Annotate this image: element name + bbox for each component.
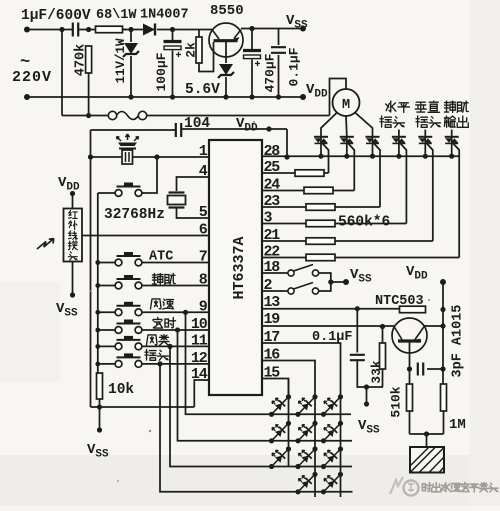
button ATC (115, 252, 142, 266)
resistor 10k (97, 373, 103, 399)
triac T2 gate wire (348, 144, 354, 191)
VSS top terminal (300, 26, 306, 32)
LED matrix row 1 line (272, 413, 352, 415)
triac T3 main vertical (372, 136, 374, 156)
wire 2k bottom to base (199, 42, 214, 72)
pin 3 wire (262, 223, 306, 225)
svg-text:NTC503: NTC503 (375, 294, 424, 309)
triac T4 main vertical (398, 136, 400, 156)
svg-text:11V/1W: 11V/1W (114, 38, 128, 84)
label fengsu (150, 299, 161, 309)
resistor 470k (86, 46, 92, 73)
IR receiver VDD terminal (70, 191, 75, 196)
triac T5 (418, 137, 432, 144)
pin 15 wire to column1 (262, 379, 289, 397)
LED row3 col2 (295, 446, 317, 469)
svg-text:10k: 10k (108, 382, 134, 398)
VDD terminal right of rail (300, 94, 306, 100)
wire pin11 to row3 (170, 346, 272, 466)
pin 3 resistor right wire (335, 223, 406, 225)
junction NTC right (440, 307, 445, 312)
junction fuse branch (59, 27, 64, 32)
capacitor 470uF (251, 29, 253, 51)
pin 21 wire (262, 240, 306, 242)
junction 33k top (380, 324, 385, 329)
button fengsu right wire to pin9 (142, 311, 209, 313)
pin 2 wire (262, 290, 288, 292)
fuse line (62, 115, 109, 117)
wire pin12 to row4 (160, 364, 298, 492)
pin 25 resistor right wire (324, 172, 329, 174)
capacitor 3pF (418, 363, 423, 376)
button yaotou (115, 353, 142, 367)
button ATC left wire (98, 262, 115, 264)
capacitor 0.1uF lower (356, 309, 358, 353)
pin 1 wire with IR indicator (91, 156, 122, 158)
fuse F1 (108, 111, 146, 119)
IR receiver VSS terminal (70, 292, 75, 297)
svg-text:470k: 470k (74, 44, 89, 76)
button S1 stem (142, 157, 157, 193)
bus A vertical (VDD/pin1/IR) (90, 130, 92, 407)
junction zener bottom (128, 94, 133, 99)
junction pin12 drop (157, 361, 162, 366)
top AC rail after cap (79, 29, 97, 31)
pin 14 wire (194, 380, 209, 407)
button fuzhu left wire (98, 285, 115, 287)
transistor Q1 8550 (209, 23, 243, 57)
resistor 33k (382, 327, 384, 344)
LED row2 col3 (321, 421, 343, 444)
base lead down (409, 341, 411, 369)
pin 18 wire (262, 272, 288, 274)
sensor bottom wire (410, 433, 444, 435)
switch SW1 pin18 (288, 265, 319, 277)
wire to VSS switches (331, 281, 346, 283)
wire pin10 to row2 (178, 330, 272, 441)
triac T5 bus junction (423, 154, 428, 159)
104 line right segment (182, 128, 287, 130)
triac T6 (445, 137, 459, 144)
junction pin1/bus A (88, 154, 93, 159)
IR receiver box (64, 209, 83, 262)
button fenglei left wire (98, 345, 115, 347)
svg-text:28: 28 (264, 143, 281, 160)
button yaotou left wire (98, 363, 115, 365)
pin 23 resistor right wire (335, 206, 380, 208)
svg-text:5.6V: 5.6V (185, 82, 220, 98)
top AC rail left segment (27, 29, 72, 31)
svg-text:2k: 2k (184, 42, 199, 58)
triac T1 gate wire (323, 144, 329, 174)
junction sensor stub (424, 431, 429, 436)
IR receiver top lead (72, 194, 74, 209)
VSS stub (99, 407, 101, 430)
triac T2 main vertical (346, 136, 348, 156)
IR signal arrow (37, 239, 54, 250)
svg-text:1N4007: 1N4007 (140, 8, 189, 23)
pin 24 resistor right wire (333, 190, 354, 192)
AC 220V top terminal (24, 27, 30, 33)
junction 10k bottom (97, 404, 102, 409)
LED row3 col3 (321, 446, 343, 469)
LED matrix row 3 line (272, 466, 353, 468)
LED row1 col1 (269, 394, 291, 417)
junction on pin28 line (284, 154, 289, 159)
label fenglei (146, 335, 157, 345)
triac T1 bus junction (318, 154, 323, 159)
junction zener 11V top (128, 27, 133, 32)
VSS terminal bottom left (97, 427, 102, 432)
label hongwaixianjietou (68, 211, 77, 219)
diode 1N4007 (143, 24, 155, 36)
VDD terminal NTC (440, 279, 446, 285)
svg-text:0.1μF: 0.1μF (287, 47, 302, 86)
resistor 2k (198, 30, 200, 38)
switch SW2 pin2 (288, 283, 319, 295)
triac T2 (340, 137, 354, 144)
button ATC right wire to pin7 (142, 262, 209, 264)
resistor 68/1W (96, 29, 126, 31)
pin 23 wire (262, 206, 306, 208)
emitter wire to VDD vertical (425, 325, 444, 327)
zener diode 11V/1W (130, 30, 132, 43)
pin 24 wire (262, 190, 304, 192)
button dingshi (115, 320, 142, 334)
VSS terminal NTC (364, 401, 369, 406)
LED row4 col1 (295, 472, 317, 495)
triac T6 output stub (451, 130, 453, 137)
fuse line to motor riser (147, 115, 330, 117)
wire to zener D1 (123, 29, 147, 31)
junction 0.1uF top (355, 306, 360, 311)
label fuzhu (152, 274, 163, 285)
triac T3 bus junction (370, 154, 375, 159)
triac T5 main vertical (424, 136, 426, 156)
button dingshi left wire (98, 329, 115, 331)
sensor stub (426, 434, 428, 447)
junction pin10 drop (175, 327, 180, 332)
resistor 1M (442, 369, 444, 384)
triac T2 bus junction (344, 154, 349, 159)
bus B top corner (97, 193, 99, 374)
temperature sensor hatched box (410, 447, 444, 473)
svg-text:470μF: 470μF (263, 53, 278, 92)
LED row1 col3 (321, 394, 343, 417)
triac T5 gate wire (427, 144, 433, 242)
capacitor 0.1uF top-right (278, 29, 280, 46)
LED row2 col2 (295, 421, 317, 444)
pin 28 bus to triacs (262, 155, 460, 157)
svg-text:8550: 8550 (210, 3, 244, 19)
pin 5 wire from crystal (177, 208, 210, 219)
transistor Q2 A1015 (392, 318, 427, 353)
motor riser wire (330, 79, 347, 116)
triac T6 gate wire (453, 144, 459, 258)
LED matrix column 1 (288, 379, 290, 467)
capacitor 104 (176, 123, 181, 137)
LED row3 col1 (269, 446, 291, 469)
LED matrix row 4 line (298, 491, 353, 493)
svg-text:HT6337A: HT6337A (231, 236, 248, 299)
switch common wire (319, 273, 331, 291)
junction 470uF bottom (249, 94, 254, 99)
zener diode 5.6V (225, 42, 227, 63)
svg-text:100μF: 100μF (154, 52, 169, 91)
button fuzhu (115, 275, 142, 289)
motor M1 (333, 89, 360, 116)
svg-text:68\1W: 68\1W (96, 8, 137, 23)
button S1 left wire (98, 192, 115, 194)
LED matrix column 2 (314, 379, 316, 498)
resistor NTC503 (400, 306, 426, 313)
junction 5.6V bottom (223, 94, 228, 99)
junction VSS stub NTC (364, 384, 369, 389)
junction 470uF top (249, 26, 254, 31)
junction 0.1uF bottom (276, 94, 281, 99)
pin 22 resistor right wire (335, 257, 459, 259)
LED matrix row 2 line (272, 440, 353, 442)
junction pin9 drop (183, 310, 188, 315)
motor lead centre (345, 116, 348, 136)
svg-text:33k: 33k (369, 360, 384, 384)
resistor 560k row pin 25 (295, 170, 324, 177)
svg-text:1μF/600V: 1μF/600V (21, 8, 91, 24)
VSS terminal switches (343, 279, 349, 285)
pin 4 wire (177, 177, 210, 191)
IR output wire to pin 6 (82, 235, 209, 237)
pin 22 wire (262, 257, 306, 259)
wire to fuse line (61, 30, 63, 116)
IC U1 HT6337A body (209, 140, 262, 395)
button S1 (top) (115, 183, 142, 197)
button fengsu left wire (98, 311, 115, 313)
pin 25 wire (262, 172, 295, 174)
label shuiping yaotou (386, 101, 396, 112)
label fuzhu shuchu (444, 101, 455, 113)
watermark text blobs (422, 483, 431, 492)
3pF right wire (427, 368, 443, 370)
button yaotou right wire to pin12 (142, 363, 209, 365)
label dingshi (153, 318, 162, 329)
wire after diode (157, 29, 199, 31)
wire 470k bottom (88, 73, 90, 116)
IR receiver bottom lead (72, 262, 74, 296)
pin 13 wire (262, 308, 401, 310)
triac T4 bus junction (396, 154, 401, 159)
resistor 560k row pin 3 (306, 220, 335, 227)
VDD vertical NTC (442, 282, 444, 369)
button fengsu (115, 302, 142, 316)
svg-text:ATC: ATC (149, 250, 173, 265)
svg-text:M: M (342, 98, 350, 113)
junction 3pF/VDD vertical (440, 366, 445, 371)
watermark bottom right (390, 477, 419, 496)
LED row1 col2 (295, 394, 317, 417)
resistor 560k row pin 21 (306, 238, 335, 245)
pin 16 wire to column2 (262, 361, 315, 379)
pin 17 wire to column3 (262, 343, 341, 379)
resistor 510k (409, 369, 411, 384)
label yaotou (145, 350, 156, 361)
triac T1 main vertical (320, 136, 322, 156)
LED matrix column 3 (340, 379, 342, 498)
resistor 560k row pin 23 (306, 204, 335, 211)
junction base/3pF (407, 366, 412, 371)
capacitor C1 1uF/600V (73, 23, 78, 37)
switch common junction (328, 279, 333, 284)
resistor 560k row pin 22 (306, 254, 335, 261)
LED row4 col2 (321, 472, 343, 495)
triac T4 output stub (398, 130, 400, 137)
104 line left segment (91, 129, 176, 131)
AC 220V bottom terminal (24, 94, 30, 100)
button fenglei (115, 336, 142, 350)
pin 1 wire to IC (133, 156, 209, 158)
capacitor 100uF (172, 30, 174, 42)
junction emitter/VDD vertical (440, 323, 445, 328)
bottom VDD rail (27, 96, 303, 98)
svg-text:32768Hz: 32768Hz (104, 207, 165, 223)
VSS stub NTC (366, 387, 368, 404)
triac T5 output stub (424, 130, 426, 137)
triac T3 (366, 137, 380, 144)
VSS rail under 10k (91, 406, 195, 408)
button dingshi right wire to pin10 (142, 329, 209, 331)
triac T3 gate wire (374, 144, 380, 208)
junction 470k top (86, 27, 91, 32)
scan specks (89, 121, 430, 482)
triac T6 bus junction (449, 154, 454, 159)
wire VDD down to pin28 (286, 129, 288, 157)
label chuizhi yaotou (415, 102, 426, 112)
junction 470k bottom on fuse line (86, 113, 91, 118)
junction pin11 drop (167, 344, 172, 349)
0.1uF bottom lead (357, 360, 383, 387)
motor lead left (321, 113, 337, 137)
pin 19 wire (262, 325, 394, 327)
LED row2 col1 (269, 421, 291, 444)
svg-text:220V: 220V (12, 69, 52, 86)
motor lead right (355, 113, 373, 137)
svg-text:560k*6: 560k*6 (338, 215, 390, 231)
VDD node dot (266, 126, 271, 131)
pin 21 resistor right wire (335, 240, 433, 242)
triac T6 main vertical (451, 136, 453, 156)
svg-text:3pF A1015: 3pF A1015 (451, 305, 466, 378)
triac T4 gate wire (400, 144, 406, 224)
button fuzhu right wire to pin8 (142, 285, 209, 287)
IR receiving LED on pin1 line (117, 134, 139, 164)
junction 100uF top (170, 27, 175, 32)
resistor 560k row pin 24 (304, 187, 333, 194)
svg-text:510k: 510k (389, 386, 404, 417)
button fenglei right wire to pin11 (142, 345, 209, 347)
triac T4 (392, 137, 406, 144)
junction 100uF bottom (170, 94, 175, 99)
junction pin1/button stem (154, 154, 159, 159)
wire pin9 to row1 (186, 312, 272, 414)
triac T1 (314, 137, 328, 144)
top rail through Q1 to VSS (199, 29, 212, 31)
svg-text:1M: 1M (449, 417, 466, 433)
